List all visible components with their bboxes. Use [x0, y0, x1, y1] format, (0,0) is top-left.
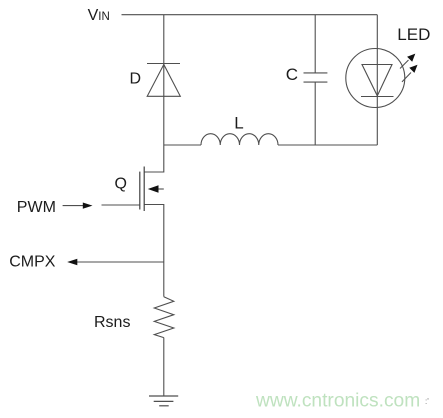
svg-text::': :': [425, 397, 429, 406]
svg-text:LED: LED: [397, 25, 430, 44]
svg-text:CMPX: CMPX: [9, 254, 56, 271]
svg-text:VIN: VIN: [88, 7, 110, 24]
svg-text:Q: Q: [115, 176, 127, 193]
svg-text:www.cntronics.com: www.cntronics.com: [255, 391, 420, 412]
svg-text:L: L: [234, 114, 243, 133]
svg-text:C: C: [286, 65, 298, 84]
svg-text:Rsns: Rsns: [94, 314, 130, 331]
svg-text:PWM: PWM: [17, 199, 56, 216]
svg-text:D: D: [130, 71, 142, 88]
